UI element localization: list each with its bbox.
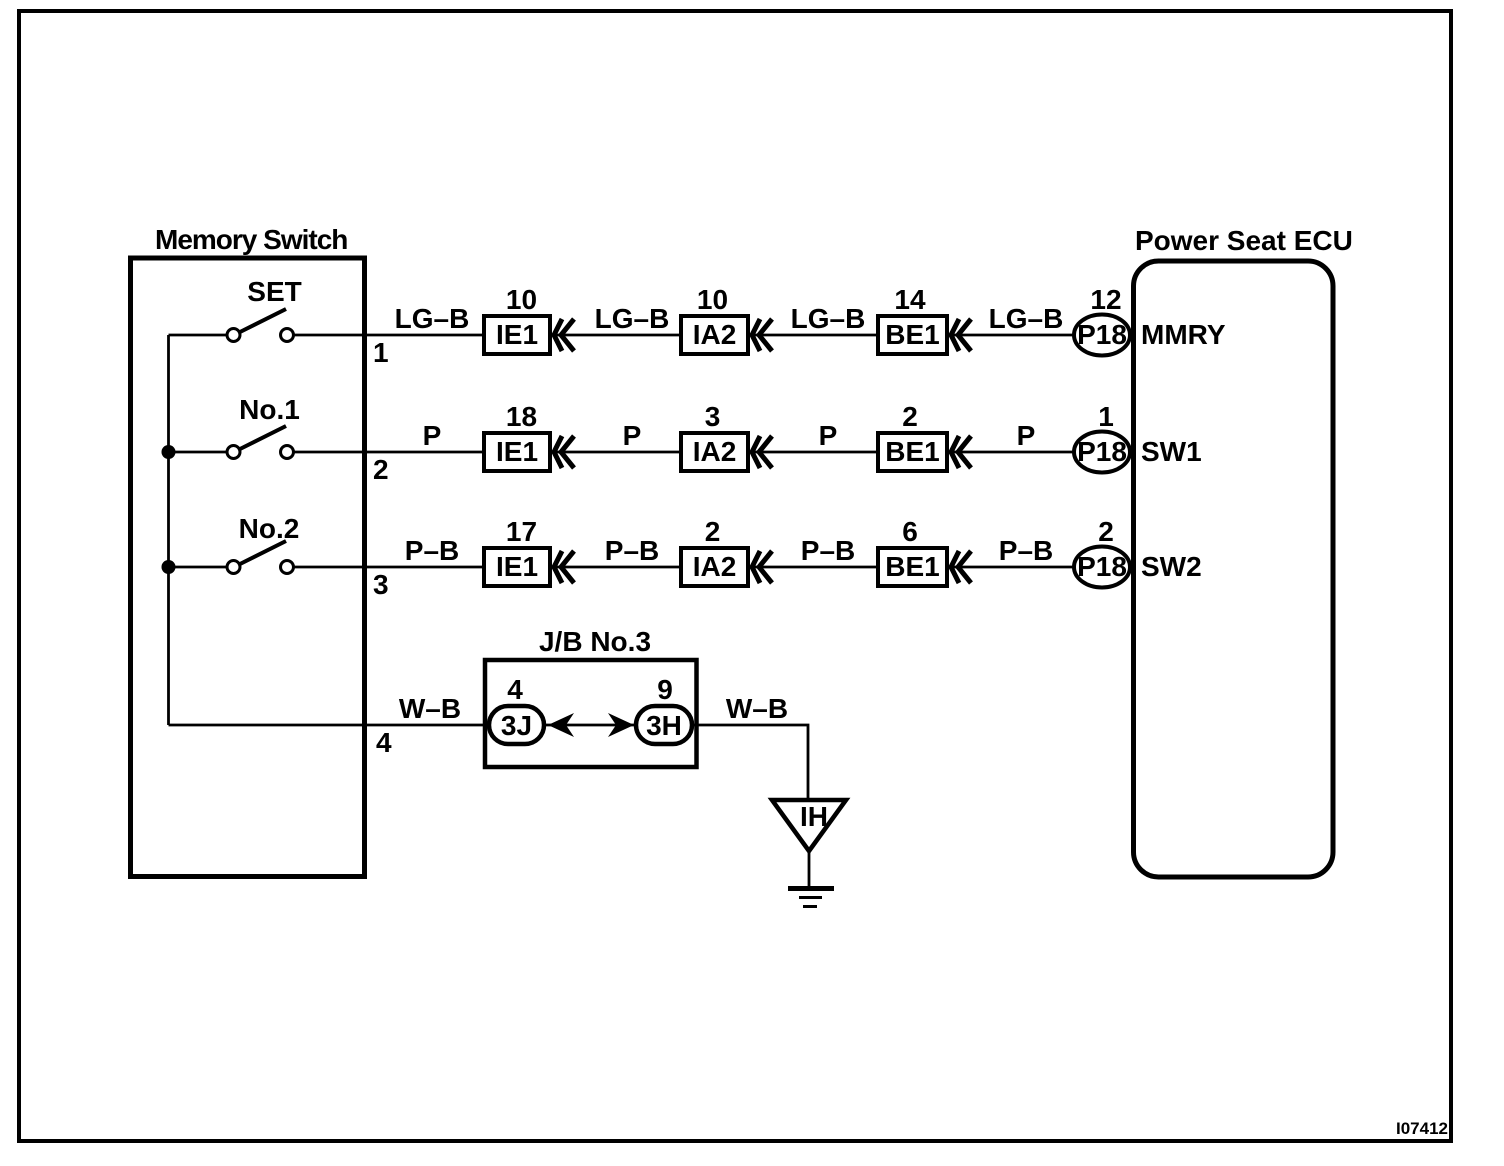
svg-text:I07412: I07412 [1396,1119,1448,1138]
svg-text:IH: IH [800,801,828,832]
svg-text:17: 17 [506,516,537,547]
connector BE1 row 1, pin 14 [878,284,971,354]
connector BE1 row 2, pin 2 [878,401,971,471]
svg-text:1: 1 [373,337,389,368]
svg-text:3: 3 [705,401,721,432]
arrowhead right (toward 3H) [608,713,634,737]
svg-text:SW2: SW2 [1141,551,1202,582]
svg-text:BE1: BE1 [885,551,939,582]
wire: pin 4 W-B to J/B No.3 and ground drop [169,725,809,800]
svg-text:IE1: IE1 [496,551,538,582]
svg-text:BE1: BE1 [885,319,939,350]
svg-text:4: 4 [376,727,392,758]
svg-text:IE1: IE1 [496,319,538,350]
junction dot node row2 [162,445,176,459]
svg-text:P: P [1017,420,1036,451]
switch No.1 left contact [227,446,240,459]
svg-text:SW1: SW1 [1141,436,1202,467]
switch SET right contact [281,329,294,342]
svg-text:IE1: IE1 [496,436,538,467]
svg-text:6: 6 [902,516,918,547]
switch No.1 right contact [281,446,294,459]
svg-text:3H: 3H [646,710,682,741]
switch SET blade [240,309,286,332]
svg-text:LG–B: LG–B [395,303,470,334]
svg-text:12: 12 [1090,284,1121,315]
ground symbol [788,852,834,907]
svg-text:SET: SET [247,276,301,307]
svg-text:2: 2 [705,516,721,547]
connector IE1 row 1, pin 10 [484,284,574,354]
svg-text:P: P [423,420,442,451]
svg-text:P–B: P–B [605,535,659,566]
switch SET left contact [227,329,240,342]
svg-text:MMRY: MMRY [1141,319,1226,350]
junction dot node row3 [162,560,176,574]
wire: switch SET to P18 pin [294,334,1077,337]
svg-text:W–B: W–B [726,693,788,724]
svg-text:P–B: P–B [405,535,459,566]
svg-text:LG–B: LG–B [989,303,1064,334]
svg-text:10: 10 [697,284,728,315]
connector IE1 row 3, pin 17 [484,516,574,586]
svg-text:LG–B: LG–B [595,303,670,334]
wire: bus to switch No.1 [169,451,228,454]
svg-text:LG–B: LG–B [791,303,866,334]
svg-text:W–B: W–B [399,693,461,724]
connector 3H pin 9 [636,674,692,744]
switch No.2 blade [240,541,286,564]
wire: switch No.2 to P18 pin [294,566,1077,569]
switch No.2 left contact [227,561,240,574]
svg-text:3: 3 [373,569,389,600]
Memory Switch box [131,258,365,877]
svg-text:IA2: IA2 [693,436,737,467]
svg-text:IA2: IA2 [693,319,737,350]
wire: bus to switch No.2 [169,566,228,569]
svg-text:IA2: IA2 [693,551,737,582]
svg-text:2: 2 [902,401,918,432]
ground connector IH triangle [772,800,846,851]
svg-text:9: 9 [657,674,673,705]
connector IA2 row 1, pin 10 [681,284,772,354]
svg-text:Memory Switch: Memory Switch [155,224,347,255]
switch No.1 blade [240,426,286,449]
svg-text:1: 1 [1098,401,1114,432]
connector 3J pin 4 [489,674,544,744]
svg-text:BE1: BE1 [885,436,939,467]
svg-text:Power Seat ECU: Power Seat ECU [1135,225,1353,256]
svg-text:P18: P18 [1077,319,1127,350]
J/B No.3 box [485,660,697,767]
svg-text:P18: P18 [1077,551,1127,582]
svg-text:2: 2 [373,454,389,485]
svg-text:P: P [819,420,838,451]
svg-text:2: 2 [1098,516,1114,547]
svg-text:P–B: P–B [801,535,855,566]
svg-text:P18: P18 [1077,436,1127,467]
wire: bus to switch SET [169,334,228,337]
svg-text:10: 10 [506,284,537,315]
svg-text:18: 18 [506,401,537,432]
svg-text:P–B: P–B [999,535,1053,566]
connector P18 row 2, pin 1 [1074,401,1130,473]
svg-text:No.1: No.1 [239,394,300,425]
svg-text:4: 4 [507,674,523,705]
wire: switch No.1 to P18 pin [294,451,1077,454]
svg-text:3J: 3J [501,710,532,741]
switch No.2 right contact [281,561,294,574]
connector IA2 row 3, pin 2 [681,516,772,586]
svg-text:J/B No.3: J/B No.3 [539,626,651,657]
connector P18 row 3, pin 2 [1074,516,1130,588]
connector IA2 row 2, pin 3 [681,401,772,471]
svg-text:14: 14 [894,284,926,315]
wire: internal bus vertical [167,335,170,725]
Power Seat ECU box U1 [1134,261,1334,877]
svg-text:P: P [623,420,642,451]
connector IE1 row 2, pin 18 [484,401,574,471]
arrowhead left (toward 3J) [548,713,574,737]
svg-text:No.2: No.2 [239,513,300,544]
connector BE1 row 3, pin 6 [878,516,971,586]
connector P18 row 1, pin 12 [1074,284,1130,356]
